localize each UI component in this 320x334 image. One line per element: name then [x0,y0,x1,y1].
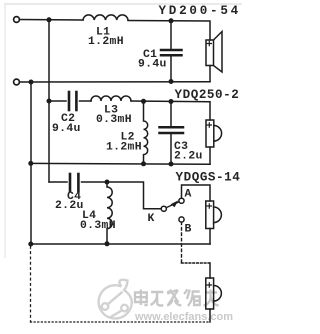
wire L3 to speaker2 [131,101,210,120]
inductor L3 [91,96,131,101]
svg-text:YDQGS-14: YDQGS-14 [176,171,241,185]
speaker U4 (woofer) [206,278,214,309]
capacitor C1 [170,21,172,49]
wire B dotted to speaker4 [181,222,183,263]
node bottom of C1 [169,79,174,84]
wire x=31 row3 [30,163,32,244]
wire dotted return left [30,247,32,323]
node J3 [47,99,52,104]
wire bottom rail row3 [31,243,211,245]
svg-text:A: A [185,189,192,201]
capacitor C4 [69,174,72,191]
switch K pivot [161,206,166,211]
capacitor C3 [170,102,172,127]
wire vertical feed x=49 [48,20,50,182]
wire vertical x=31 [30,82,32,163]
node J2 [29,80,34,85]
speaker U1 YD200-54 [206,40,214,66]
svg-text:1.2mH: 1.2mH [106,142,142,154]
svg-text:K: K [148,213,155,225]
svg-text:0.3mH: 0.3mH [80,220,116,232]
svg-text:B: B [185,224,192,236]
watermark logo [99,280,132,319]
node bottom of C3 [169,162,174,167]
speaker U2 YDQ250-2 [206,120,214,147]
svg-text:9.4u: 9.4u [52,123,81,135]
switch K arm [166,202,179,208]
node J5 [28,242,33,247]
wire C2 to L3 [80,100,92,102]
terminal T1 [14,17,20,23]
node top of C3 [169,99,174,104]
terminal T2 [14,79,20,85]
capacitor C2 [68,92,71,110]
wire bottom rail row1 [20,81,210,83]
wire A to speaker3 [182,185,211,201]
svg-text:YD200-54: YD200-54 [159,4,241,18]
node J4 [28,161,33,166]
svg-text:0.3mH: 0.3mH [96,114,132,126]
node bottom of L2 [141,161,146,166]
wire speaker4 bottom [209,309,211,322]
wire speaker1 bottom [209,66,211,82]
svg-text:1.2mH: 1.2mH [88,36,124,48]
contact B [179,217,184,222]
wire T1 to L1 [20,19,83,22]
page border top [4,3,242,5]
wire speaker2 bottom [209,147,211,164]
wire C4 to switch [82,182,162,209]
watermark text 电子发烧友 [135,290,219,307]
svg-text:www.elecfans.com: www.elecfans.com [134,311,233,323]
wire dotted return bottom [31,321,211,323]
node top of C1 [169,18,174,23]
wire speaker3 bottom [209,229,211,245]
wire row3 corner [49,181,67,183]
inductor L2 [144,101,148,164]
svg-text:YDQ250-2: YDQ250-2 [175,88,240,102]
svg-text:2.2u: 2.2u [174,151,203,163]
node top of L4 [105,180,110,185]
node J1 [47,17,52,22]
switch arrowhead [171,200,179,207]
speaker U3 YDQGS-14 [206,201,214,229]
contact A [179,198,184,203]
page border left [4,4,6,258]
wire L1 to speaker1 [128,21,210,41]
svg-text:2.2u: 2.2u [55,200,84,212]
inductor L4 [107,182,112,244]
inductor L1 [83,15,128,20]
wire bottom rail row2 [31,162,211,165]
node top of L2 [141,99,146,104]
svg-text:9.4u: 9.4u [138,59,167,71]
wire J3 to C2 [49,100,66,102]
node bottom of L4 [105,241,110,246]
